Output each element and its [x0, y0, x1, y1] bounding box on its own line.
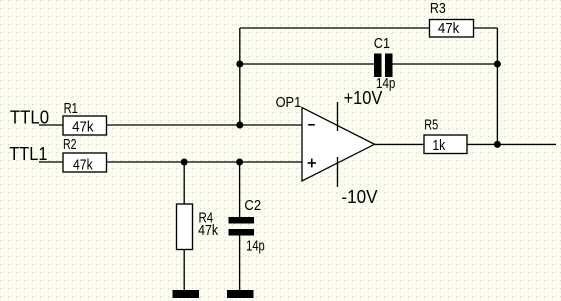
svg-text:R5: R5	[424, 116, 438, 133]
wire C2 top	[239, 162, 241, 217]
svg-text:47k: 47k	[72, 118, 94, 135]
svg-text:R3: R3	[430, 0, 446, 17]
wire C1 left	[240, 63, 374, 65]
svg-text:R1: R1	[64, 100, 78, 117]
svg-text:OP1: OP1	[276, 94, 302, 111]
junction C2	[236, 159, 243, 166]
junction C1 left	[236, 61, 243, 68]
wire R5 to output junction	[467, 143, 556, 145]
resistor R3	[430, 0, 474, 37]
wire R4 top	[183, 162, 185, 204]
junction output	[494, 141, 501, 148]
wire top net: R3 feedback	[240, 27, 430, 29]
svg-text:1k: 1k	[432, 137, 445, 154]
resistor R2	[63, 136, 107, 173]
resistor R1	[63, 100, 107, 136]
capacitor C2	[229, 197, 265, 254]
wire R1 to op-amp minus input	[107, 124, 303, 126]
svg-text:14p: 14p	[246, 237, 265, 254]
wire right vertical feedback	[496, 28, 498, 144]
wire R2 to op-amp plus input	[107, 161, 303, 163]
op-amp OP1	[276, 87, 383, 207]
svg-text:-10V: -10V	[341, 186, 378, 207]
junction C1 right	[494, 61, 501, 68]
svg-text:47k: 47k	[73, 156, 93, 173]
resistor R5	[424, 116, 467, 154]
power pin -10V	[337, 157, 339, 187]
wire TTL1 lead	[39, 161, 63, 163]
wire R3 to right vertical	[474, 27, 498, 29]
resistor R4	[177, 204, 219, 250]
power pin +10V	[337, 102, 339, 131]
plus symbol	[308, 159, 316, 168]
wire left vertical feedback	[239, 28, 241, 125]
svg-text:47k: 47k	[438, 20, 460, 37]
wire R4 bottom to ground	[183, 250, 185, 291]
junction R4	[181, 159, 188, 166]
ground (R4)	[173, 290, 200, 298]
wire C1 right	[393, 63, 498, 65]
capacitor C1	[374, 35, 396, 92]
junction minus input	[236, 122, 243, 129]
svg-text:C2: C2	[244, 197, 261, 214]
svg-text:C1: C1	[374, 35, 390, 52]
ground (C2)	[227, 290, 254, 298]
svg-text:47k: 47k	[198, 222, 218, 239]
minus symbol	[308, 124, 315, 126]
wire TTL0 lead	[39, 124, 63, 126]
svg-text:TTL0: TTL0	[10, 106, 49, 127]
wire op-amp output	[375, 143, 425, 145]
svg-text:+10V: +10V	[344, 87, 383, 108]
wire C2 bottom to ground	[239, 236, 241, 291]
svg-text:TTL1: TTL1	[9, 143, 47, 164]
svg-text:R2: R2	[63, 136, 77, 153]
